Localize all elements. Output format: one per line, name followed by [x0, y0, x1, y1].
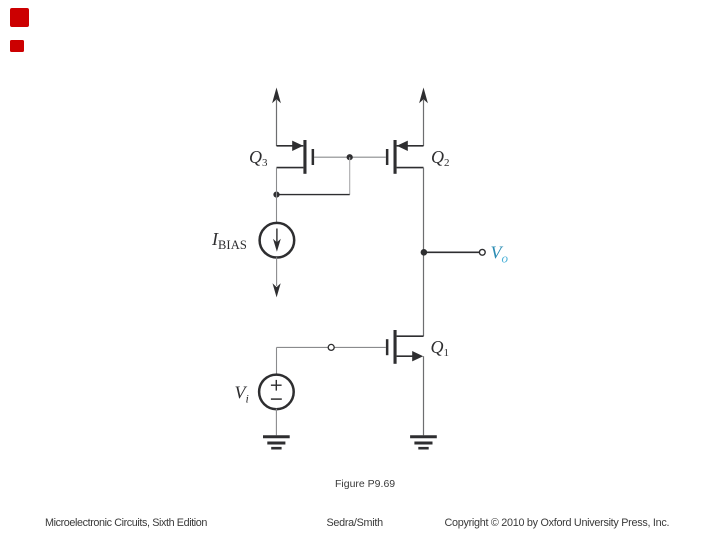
power arrow (VDD) above Q2 [419, 88, 428, 147]
svg-text:Figure P9.69: Figure P9.69 [335, 478, 395, 490]
svg-text:Microelectronic Circuits, Sixt: Microelectronic Circuits, Sixth Edition [45, 517, 207, 529]
ground (right) [410, 437, 437, 448]
transistor Q1 (NMOS) [386, 330, 424, 364]
ground (left) [263, 437, 290, 448]
svg-text:Q3: Q3 [249, 147, 268, 169]
svg-text:Copyright © 2010 by Oxford Uni: Copyright © 2010 by Oxford University Pr… [445, 517, 670, 529]
node: Q3 drain junction dot [273, 192, 279, 198]
wire: Q2 drain rail down to output node [423, 168, 425, 337]
wire: Q1 source rail down to ground [423, 356, 425, 435]
voltage source Vi [259, 375, 294, 410]
wire: input down to Vi source [276, 347, 278, 374]
svg-text:Sedra/Smith: Sedra/Smith [327, 517, 384, 529]
svg-text:Q1: Q1 [431, 337, 450, 359]
wire: Vi to ground [275, 409, 277, 436]
terminal: output open circle [479, 249, 485, 255]
current source IBIAS [260, 223, 295, 258]
transistor Q3 (PMOS, diode-connected) [277, 140, 350, 174]
wire: below current source [276, 257, 278, 286]
svg-text:IBIAS: IBIAS [211, 229, 247, 252]
svg-text:Vi: Vi [235, 382, 249, 405]
wire: Q1 gate lead with input terminal [277, 346, 386, 348]
node: output junction dot [421, 249, 428, 256]
power arrow (VDD) above Q3 [272, 88, 281, 147]
wire: Q3 drain to current source [276, 168, 278, 223]
transistor Q2 (PMOS) [350, 140, 424, 174]
arrow: current direction down [273, 283, 281, 297]
wire: gate junction down [349, 157, 351, 194]
terminal: input open circle [328, 344, 334, 350]
wire: output node to terminal [424, 251, 479, 253]
svg-text:Vo: Vo [491, 242, 509, 265]
red slide-template mark (large square, top-left) [10, 8, 29, 27]
svg-text:Q2: Q2 [431, 147, 450, 169]
node: gates junction dot [347, 154, 353, 160]
wire: feedback horizontal to Q3 drain [277, 194, 350, 196]
red slide-template mark (small square below) [10, 40, 24, 52]
